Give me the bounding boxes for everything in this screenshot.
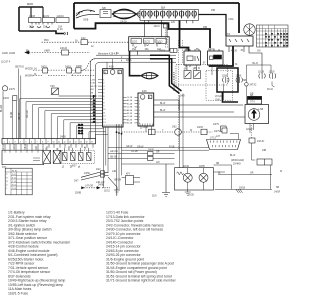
svg-text:I-15A: I-15A bbox=[228, 18, 234, 21]
fuse 11C/16 bbox=[144, 39, 155, 44]
dashed wire to mode selector bbox=[122, 131, 213, 133]
contact boxes bbox=[43, 150, 51, 163]
svg-text:SB-W: SB-W bbox=[25, 143, 27, 150]
connector 24/55 bbox=[257, 159, 272, 165]
svg-text:0 1 1: 0 1 1 bbox=[12, 178, 16, 180]
wire ignition main vertical bbox=[238, 3, 240, 33]
wires module pins left bbox=[98, 80, 103, 97]
svg-text:10: 10 bbox=[103, 109, 105, 111]
svg-text:GR-SB: GR-SB bbox=[19, 112, 21, 120]
mode selector 3/62 bbox=[175, 129, 182, 136]
svg-text:8: 8 bbox=[42, 142, 43, 144]
svg-text:W-R: W-R bbox=[90, 89, 94, 91]
svg-text:24/2: 24/2 bbox=[81, 38, 86, 40]
wire bottom feed to main bbox=[19, 31, 64, 34]
svg-text:3/72: 3/72 bbox=[193, 69, 198, 71]
svg-text:10/55: 10/55 bbox=[199, 166, 205, 168]
instrument cluster 5/1 thick loop bbox=[217, 68, 238, 102]
svg-text:24/2: 24/2 bbox=[96, 169, 101, 171]
svg-text:11/04: 11/04 bbox=[27, 3, 33, 6]
svg-text:11C/8: 11C/8 bbox=[29, 16, 36, 18]
connector 24/2 pin bbox=[81, 40, 88, 45]
svg-text:W: W bbox=[190, 130, 193, 132]
wires between modules bbox=[123, 97, 138, 123]
legend text block bbox=[8, 211, 177, 296]
wire 4/46 bottom drops bbox=[141, 126, 152, 132]
svg-text:7/28: 7/28 bbox=[50, 86, 55, 88]
svg-text:SB/GN: SB/GN bbox=[114, 180, 121, 182]
relay 2/30:3 starter bbox=[208, 51, 224, 65]
wire module 4/28 bottom drops bbox=[104, 124, 210, 196]
wire left bundle verticals bbox=[3, 69, 21, 139]
solenoids 8/37 dashed box bbox=[60, 150, 95, 163]
wire main top feed bbox=[74, 2, 239, 4]
svg-text:C2-3B: C2-3B bbox=[127, 107, 133, 109]
svg-text:B1-4A: B1-4A bbox=[127, 102, 133, 105]
svg-text:3: 3 bbox=[103, 86, 104, 88]
svg-text:31: 31 bbox=[235, 64, 238, 66]
svg-text:(MODULAR): (MODULAR) bbox=[231, 159, 244, 162]
svg-text:C1-4B: C1-4B bbox=[127, 116, 133, 118]
svg-text:1: 1 bbox=[103, 79, 104, 81]
svg-text:14/1R: 14/1R bbox=[274, 192, 280, 194]
svg-text:12: 12 bbox=[103, 116, 105, 118]
svg-text:20-3B: 20-3B bbox=[78, 130, 84, 132]
svg-text:4: 4 bbox=[20, 142, 21, 144]
connector 24/2 pair bbox=[101, 171, 105, 174]
dashed box kickdown region bbox=[176, 65, 228, 85]
svg-text:4: 4 bbox=[139, 110, 140, 112]
connector 24/140 bbox=[62, 50, 69, 55]
svg-text:11C/1: 11C/1 bbox=[132, 42, 139, 44]
wire merge diagonal bbox=[72, 59, 96, 76]
ground 31/51 bbox=[114, 187, 120, 194]
svg-text:12: 12 bbox=[91, 46, 94, 48]
svg-text:15A: 15A bbox=[132, 48, 137, 51]
svg-text:11: 11 bbox=[103, 112, 105, 114]
svg-text:L4D: L4D bbox=[112, 171, 117, 173]
svg-text:SB: SB bbox=[85, 146, 87, 150]
svg-text:15A1: 15A1 bbox=[215, 98, 221, 101]
wire thick elbow 2 bbox=[150, 59, 182, 91]
svg-text:11C/9: 11C/9 bbox=[269, 72, 276, 74]
svg-text:24/50: 24/50 bbox=[84, 173, 90, 175]
svg-text:15: 15 bbox=[80, 142, 82, 144]
wire top-left fuse feed bbox=[19, 6, 43, 8]
svg-text:10AB, 10AW: 10AB, 10AW bbox=[2, 52, 16, 55]
connector 24/1JC bbox=[249, 138, 255, 143]
dashed box instrument region bbox=[206, 71, 233, 100]
svg-text:5: 5 bbox=[139, 113, 140, 115]
svg-text:CA-2A: CA-2A bbox=[120, 20, 127, 23]
svg-text:7: 7 bbox=[103, 99, 104, 101]
svg-text:BL-R: BL-R bbox=[253, 63, 259, 65]
svg-text:5: 5 bbox=[103, 93, 104, 95]
svg-text:12: 12 bbox=[64, 142, 66, 144]
connector strip 24/93 bottom bbox=[2, 139, 96, 144]
svg-text:C4-2B: C4-2B bbox=[131, 151, 138, 153]
wire BL-R run bbox=[246, 65, 274, 105]
wire memories run 1 bbox=[90, 59, 95, 139]
svg-text:24/140: 24/140 bbox=[60, 48, 68, 50]
svg-text:24B: 24B bbox=[262, 150, 267, 152]
fuses 11A elements bbox=[142, 10, 197, 18]
svg-text:20/9B: 20/9B bbox=[75, 193, 81, 195]
wire strip drops bbox=[5, 144, 93, 153]
fuse 11C/10 bbox=[56, 18, 69, 23]
svg-text:Memories 4,26-4,5: Memories 4,26-4,5 bbox=[173, 71, 176, 91]
svg-text:16: 16 bbox=[86, 142, 88, 144]
svg-text:OR: OR bbox=[156, 151, 160, 153]
wire bottom middle runs bbox=[108, 154, 175, 165]
svg-text:2: 2 bbox=[9, 142, 10, 144]
wire ignition feed bbox=[199, 15, 227, 37]
svg-text:11B/1-5 Fuse: 11B/1-5 Fuse bbox=[8, 291, 28, 295]
wire fan to bottom strip bbox=[20, 99, 108, 139]
oil temp sensor 7/74 bbox=[248, 97, 262, 105]
svg-text:31/71-Ground terminal right fr: 31/71-Ground terminal right front side m… bbox=[106, 279, 177, 283]
table solenoid chart bbox=[5, 168, 32, 195]
wire main left vertical bbox=[73, 3, 75, 29]
svg-text:KFY: KFY bbox=[126, 174, 131, 176]
svg-text:1: 1 bbox=[4, 142, 5, 144]
svg-text:1 1 0: 1 1 0 bbox=[12, 181, 16, 183]
svg-text:14: 14 bbox=[75, 142, 77, 144]
svg-text:15A: 15A bbox=[145, 48, 150, 51]
ignition position table bbox=[257, 25, 289, 47]
wire diag to ground left bbox=[108, 177, 117, 187]
svg-text:GR-OR: GR-OR bbox=[110, 151, 118, 153]
svg-text:3: 3 bbox=[139, 107, 140, 109]
wire stubs module top bbox=[107, 59, 113, 69]
svg-text:22/4HD: 22/4HD bbox=[233, 164, 241, 166]
svg-text:7: 7 bbox=[37, 142, 38, 144]
dashed verticals mid bbox=[166, 30, 252, 151]
svg-text:#7B: #7B bbox=[76, 14, 81, 16]
wire labels left bundle bbox=[1, 67, 29, 121]
svg-text:1 0 1: 1 0 1 bbox=[12, 174, 16, 176]
svg-text:20/1B: 20/1B bbox=[239, 187, 245, 189]
svg-text:B2-3A: B2-3A bbox=[127, 122, 133, 125]
svg-text:24/80: 24/80 bbox=[76, 66, 82, 68]
cable oval 2 bbox=[141, 73, 158, 79]
ground 31/6 bbox=[162, 164, 170, 197]
ground under lamps bbox=[185, 190, 191, 196]
lamp 10/49 bbox=[183, 173, 192, 182]
connector 24/30 stack bbox=[148, 152, 154, 156]
svg-text:2: 2 bbox=[139, 104, 140, 106]
svg-text:7: 7 bbox=[139, 120, 140, 122]
svg-text:11B/6: 11B/6 bbox=[236, 76, 243, 78]
wire labels misc bbox=[26, 10, 283, 189]
fuse holder 11C bbox=[129, 37, 170, 51]
wire fan labels bbox=[78, 97, 96, 135]
svg-text:24T3C: 24T3C bbox=[250, 85, 257, 87]
svg-text:20-4A: 20-4A bbox=[78, 132, 84, 135]
wire 4/46 outputs right bbox=[154, 100, 245, 117]
svg-text:9: 9 bbox=[48, 142, 49, 144]
wire left drop bbox=[18, 7, 20, 31]
svg-text:SB: SB bbox=[276, 187, 280, 189]
wire relay 1 feed bbox=[180, 20, 189, 51]
connector 24/79 bbox=[2, 86, 7, 91]
svg-text:2: 2 bbox=[103, 83, 104, 85]
wire arrow to module bbox=[59, 95, 94, 97]
svg-text:6: 6 bbox=[93, 97, 94, 99]
svg-text:11C/37 4: 11C/37 4 bbox=[1, 62, 11, 64]
fuse 11C/17 bbox=[156, 39, 167, 44]
svg-text:87: 87 bbox=[203, 63, 206, 65]
svg-text:GR-OR: GR-OR bbox=[90, 86, 97, 88]
svg-text:BL-R: BL-R bbox=[160, 110, 166, 112]
svg-text:GR: GR bbox=[250, 94, 254, 96]
svg-text:BL-R: BL-R bbox=[230, 155, 236, 157]
svg-text:3: 3 bbox=[15, 142, 16, 144]
svg-text:11: 11 bbox=[58, 142, 60, 144]
svg-text:24/50: 24/50 bbox=[60, 137, 66, 139]
connector 24/79 r bbox=[221, 126, 227, 132]
svg-text:15A: 15A bbox=[29, 26, 34, 29]
svg-text:O5/B: O5/B bbox=[83, 20, 89, 22]
svg-text:24/9B: 24/9B bbox=[98, 185, 104, 187]
fuse 11B/6 bbox=[236, 77, 243, 83]
svg-text:1 0 0: 1 0 0 bbox=[12, 188, 16, 190]
svg-text:24/93: 24/93 bbox=[143, 127, 149, 129]
svg-text:24/79: 24/79 bbox=[214, 131, 220, 133]
svg-text:24/79: 24/79 bbox=[9, 89, 15, 91]
fuse 11C/6 bbox=[269, 73, 276, 79]
connector 24/2 r bbox=[222, 128, 227, 133]
svg-text:L-SB: L-SB bbox=[258, 109, 264, 111]
svg-text:L4BR: L4BR bbox=[44, 51, 50, 53]
svg-text:2A: 2A bbox=[75, 39, 78, 42]
fuse 11C/15 bbox=[131, 39, 142, 44]
ground hatch 20/1B bbox=[236, 189, 243, 193]
module 4/28 bottom pin ticks bbox=[104, 125, 120, 128]
backup lamps box bbox=[175, 168, 214, 190]
svg-text:L4T: L4T bbox=[216, 136, 221, 138]
fuse clips 15A bbox=[30, 23, 52, 28]
svg-text:GR-W: GR-W bbox=[137, 147, 144, 149]
wire fuse drops bbox=[145, 20, 193, 36]
svg-text:30: 30 bbox=[241, 50, 244, 52]
svg-text:B3-1B: B3-1B bbox=[127, 113, 133, 115]
wire thick elbow 1 bbox=[150, 55, 180, 93]
fuse box S/B bbox=[100, 10, 111, 18]
svg-text:P-SB: P-SB bbox=[169, 147, 175, 149]
ignition key circle bbox=[244, 24, 255, 35]
svg-text:8: 8 bbox=[103, 102, 104, 104]
svg-text:6A: 6A bbox=[116, 52, 119, 55]
svg-text:31/50: 31/50 bbox=[188, 195, 194, 197]
svg-text:14: 14 bbox=[103, 122, 105, 124]
wire lamp feeds bbox=[180, 94, 232, 173]
svg-text:A2-1A: A2-1A bbox=[127, 99, 133, 102]
svg-text:20-1A: 20-1A bbox=[78, 126, 84, 129]
fuse 11B/5 bbox=[223, 77, 230, 83]
svg-text:31/6: 31/6 bbox=[152, 196, 157, 198]
svg-text:BL-R: BL-R bbox=[160, 103, 166, 105]
svg-text:GR-W: GR-W bbox=[126, 146, 133, 148]
svg-text:SB: SB bbox=[216, 163, 220, 165]
svg-text:S1: S1 bbox=[63, 164, 65, 168]
svg-text:SB: SB bbox=[243, 80, 247, 82]
svg-text:24/7: 24/7 bbox=[74, 181, 79, 183]
svg-text:15A: 15A bbox=[58, 26, 63, 29]
svg-text:A3-2B: A3-2B bbox=[127, 118, 133, 121]
svg-text:0 0 1: 0 0 1 bbox=[12, 185, 16, 187]
svg-text:GN: GN bbox=[257, 51, 261, 53]
speed sensor 7/31 bbox=[245, 105, 269, 124]
svg-text:20-2B: 20-2B bbox=[78, 124, 84, 126]
engine control module 4/46 bbox=[138, 93, 154, 126]
svg-text:9: 9 bbox=[103, 106, 104, 108]
svg-text:3/62: 3/62 bbox=[172, 127, 177, 129]
fuse block 11A bbox=[140, 10, 199, 21]
svg-text:1: 1 bbox=[139, 101, 140, 103]
svg-text:6: 6 bbox=[31, 142, 32, 144]
kickdown switch 3/72 bbox=[194, 71, 201, 79]
wire fuse 11C/9 drop bbox=[42, 7, 44, 18]
svg-text:GN: GN bbox=[156, 162, 160, 164]
splice 24T3C bbox=[245, 83, 249, 87]
svg-text:17: 17 bbox=[91, 142, 93, 144]
svg-text:BN: BN bbox=[26, 51, 30, 53]
relay KFY box bbox=[126, 176, 134, 185]
svg-text:24/9: 24/9 bbox=[180, 96, 185, 98]
svg-text:10/49: 10/49 bbox=[183, 166, 189, 168]
svg-text:11C/9: 11C/9 bbox=[43, 16, 50, 18]
svg-text:10: 10 bbox=[53, 142, 55, 144]
gear position sensor 3/71 bbox=[2, 150, 44, 165]
svg-text:SL: SL bbox=[79, 164, 81, 168]
svg-text:3/71: 3/71 bbox=[2, 167, 7, 169]
svg-text:W-GR: W-GR bbox=[3, 143, 5, 150]
svg-text:24/79: 24/79 bbox=[213, 124, 219, 126]
svg-text:11A: 11A bbox=[161, 7, 165, 10]
svg-text:31/51: 31/51 bbox=[104, 191, 110, 193]
control module 4/28 bbox=[103, 69, 123, 127]
connector 24/93 c bbox=[149, 129, 156, 135]
lamp 10/55 bbox=[199, 173, 208, 182]
svg-text:24/93: 24/93 bbox=[159, 51, 165, 53]
wire arrow L4T-GR bbox=[84, 187, 110, 189]
dashed wire PNK bbox=[42, 41, 129, 43]
svg-text:24/63: 24/63 bbox=[3, 98, 9, 100]
rpm sensor 7/28 box bbox=[52, 88, 59, 95]
svg-text:Y: Y bbox=[162, 130, 164, 132]
svg-text:VO: VO bbox=[47, 146, 49, 150]
svg-text:12C: 12C bbox=[171, 22, 176, 24]
svg-text:S/B: S/B bbox=[102, 8, 106, 10]
ignition switch 3/1 bbox=[226, 36, 253, 46]
wire lamp drops bbox=[188, 168, 204, 190]
svg-text:SB-GR: SB-GR bbox=[110, 157, 118, 159]
fuse 11C/9 bbox=[43, 18, 55, 23]
pin labels module 4/28 bbox=[90, 79, 105, 124]
wire splice arcs bbox=[76, 10, 99, 18]
svg-text:13: 13 bbox=[69, 142, 71, 144]
svg-text:KL 30: KL 30 bbox=[231, 51, 238, 53]
svg-text:OR-GR: OR-GR bbox=[27, 110, 29, 118]
fuse 11C/8 bbox=[29, 18, 42, 23]
svg-text:BL-GR: BL-GR bbox=[1, 105, 3, 112]
wire thick feed to oval bbox=[130, 51, 141, 76]
wire bundle to fuse strip bbox=[136, 11, 140, 18]
connector 24/80 merge bbox=[76, 68, 81, 73]
svg-text:C4-2B: C4-2B bbox=[127, 97, 133, 99]
svg-text:24/30: 24/30 bbox=[148, 150, 154, 152]
svg-text:16R: 16R bbox=[211, 10, 216, 12]
svg-text:A4-2A: A4-2A bbox=[127, 109, 133, 112]
svg-text:GR: GR bbox=[250, 173, 254, 175]
svg-text:6: 6 bbox=[103, 96, 104, 98]
svg-text:7/74: 7/74 bbox=[250, 102, 255, 104]
wire memories run 2 bbox=[95, 62, 176, 138]
svg-text:GR: GR bbox=[36, 146, 38, 150]
svg-text:4/46: 4/46 bbox=[142, 91, 147, 93]
wire staircase to fuse strip bbox=[74, 23, 210, 48]
svg-text:4/28: 4/28 bbox=[109, 67, 114, 69]
relay 2/31 bbox=[184, 51, 201, 65]
svg-text:GR: GR bbox=[90, 93, 93, 95]
svg-text:31/44: 31/44 bbox=[267, 89, 273, 91]
wire fuse 11C/8 drop bbox=[30, 7, 32, 18]
connector 24/93 d bbox=[201, 129, 207, 135]
svg-text:SB/TN D: SB/TN D bbox=[15, 67, 24, 69]
svg-text:8/37: 8/37 bbox=[72, 166, 77, 168]
svg-text:GR-W: GR-W bbox=[14, 142, 16, 149]
junction dots bbox=[116, 131, 123, 134]
cable bundle oval bbox=[113, 9, 137, 19]
wire bottom mid connectors bbox=[81, 172, 109, 180]
wire labels under strip bbox=[3, 142, 87, 168]
svg-text:11B/5: 11B/5 bbox=[222, 76, 229, 78]
svg-text:11C/2: 11C/2 bbox=[144, 42, 151, 44]
svg-text:Y: Y bbox=[58, 148, 60, 150]
fuse holder pins bbox=[133, 44, 157, 56]
svg-text:11 20: 11 20 bbox=[57, 29, 63, 31]
svg-text:15A: 15A bbox=[43, 26, 48, 29]
svg-text:4: 4 bbox=[103, 89, 104, 91]
svg-text:5: 5 bbox=[26, 142, 27, 144]
svg-text:W: W bbox=[280, 171, 283, 173]
svg-text:L4D-GR: L4D-GR bbox=[96, 182, 105, 184]
wire memories run 3 bbox=[96, 54, 176, 56]
svg-text:W/GRN: W/GRN bbox=[25, 76, 33, 78]
svg-text:S1 S2: S1 S2 bbox=[12, 171, 17, 173]
svg-text:BN: BN bbox=[69, 146, 71, 150]
svg-text:11C/8: 11C/8 bbox=[258, 72, 265, 74]
svg-text:11C/10: 11C/10 bbox=[57, 16, 65, 18]
svg-text:L-GN: L-GN bbox=[90, 79, 95, 81]
svg-text:6: 6 bbox=[139, 117, 140, 119]
svg-text:24/1JC: 24/1JC bbox=[257, 141, 265, 143]
svg-text:W-GR: W-GR bbox=[11, 111, 13, 118]
svg-text:W/GDD: W/GDD bbox=[25, 68, 33, 70]
svg-text:P-GR: P-GR bbox=[90, 83, 95, 85]
svg-text:2/30:3: 2/30:3 bbox=[208, 49, 215, 51]
svg-text:GN-W: GN-W bbox=[246, 129, 253, 131]
resistor in lamp box bbox=[177, 172, 184, 175]
data link connector 17/13 bbox=[207, 140, 241, 150]
wire relay pins down bbox=[187, 65, 224, 100]
svg-text:13: 13 bbox=[103, 119, 105, 121]
wire ignition outputs bbox=[209, 46, 233, 66]
svg-text:12C/1: 12C/1 bbox=[154, 26, 161, 28]
svg-text:L4T-GR: L4T-GR bbox=[85, 186, 93, 188]
svg-text:PNK: PNK bbox=[44, 40, 49, 42]
